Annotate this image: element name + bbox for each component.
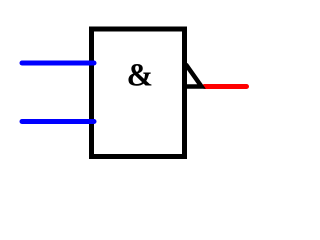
svg-text:&: &: [127, 56, 153, 93]
